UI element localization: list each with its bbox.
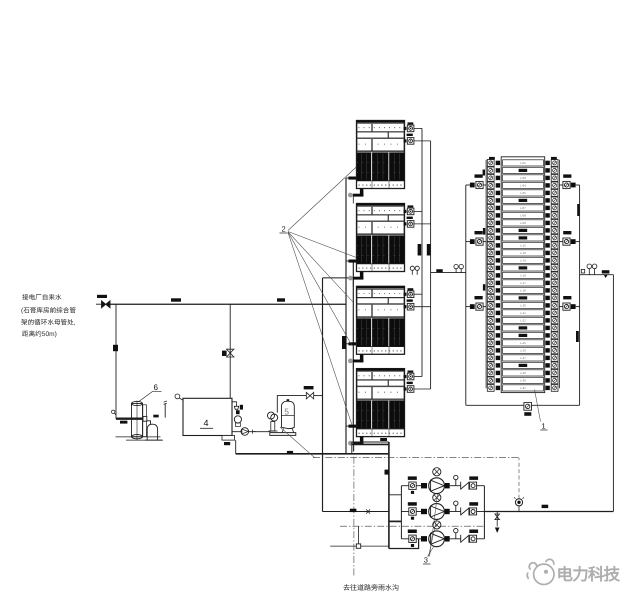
- svg-text:L-13: L-13: [520, 251, 526, 255]
- svg-text:L-03: L-03: [520, 176, 526, 180]
- gauge pair on rack right run: [587, 264, 597, 275]
- svg-text:L-20: L-20: [520, 304, 526, 308]
- level gauge on tank 4: [175, 394, 183, 400]
- svg-text:3: 3: [424, 556, 428, 565]
- gauge pair on cross connector: [454, 264, 464, 272]
- svg-text:L-31: L-31: [520, 386, 526, 390]
- tag under softener feed: [120, 421, 127, 424]
- basin top edge: [352, 442, 389, 444]
- circulating pump row 2: [401, 494, 484, 520]
- svg-text:L-09: L-09: [520, 221, 526, 225]
- valve on supply main: [96, 295, 110, 308]
- tag on main discharge line: [542, 505, 549, 508]
- tag beside rack right header lower: [576, 331, 579, 342]
- rack module row 22: [487, 317, 558, 324]
- rack manifold tap L y=185.0: [466, 174, 486, 188]
- rack manifold tap R y=306.6: [559, 296, 579, 310]
- centerline dash-dot vertical: [353, 444, 355, 577]
- rack left inner header: [485, 160, 487, 388]
- svg-text:L-16: L-16: [520, 274, 526, 278]
- rack module row 2: [487, 167, 558, 174]
- tag on riser B: [342, 336, 346, 349]
- tag right of softener: [153, 415, 158, 418]
- svg-text:L-04: L-04: [520, 184, 526, 188]
- wire: tank 4 drain drop: [235, 440, 237, 454]
- basin right edge pipe: [388, 442, 390, 549]
- dashed impulse line of flow meter: [518, 458, 520, 499]
- bladder tank 5: [282, 399, 295, 432]
- rack outer frame: [501, 157, 545, 393]
- mixer tag on tank 4: [236, 410, 240, 414]
- leader line from tank 5 area: [280, 427, 315, 458]
- rack module row 4: [487, 182, 558, 189]
- tag at overflow: [240, 405, 243, 410]
- pump suction manifold: [400, 486, 402, 539]
- rack module row 15: [487, 265, 558, 272]
- small fitting on rack right run: [581, 269, 584, 273]
- drain piping of unit 2-4: [346, 425, 363, 452]
- rack module row 29: [487, 370, 558, 377]
- valve on pump 5 discharge: [304, 386, 314, 399]
- svg-text:L-08: L-08: [520, 214, 526, 218]
- pipe tag on left drop: [113, 345, 118, 351]
- rack module row 26: [487, 347, 558, 354]
- rack module row 28: [487, 362, 558, 369]
- wire: blowdown line left: [323, 511, 389, 513]
- collector riser x=422: [421, 128, 423, 376]
- tank 4 overflow funnel: [232, 402, 239, 410]
- pipe tag on supply main 1: [171, 298, 181, 301]
- tag on collector riser A: [418, 244, 422, 256]
- drain piping of unit 2-2: [346, 260, 363, 287]
- wire: supply main horizontal: [110, 303, 346, 305]
- label 6 with leader: [139, 383, 162, 402]
- small gauge on feed drop: [112, 410, 117, 415]
- rack module row 11: [487, 235, 558, 242]
- wire: basin stub 1: [389, 494, 402, 496]
- riser pipe A x=322.5: [322, 278, 324, 512]
- svg-text:L-26: L-26: [520, 349, 526, 353]
- flow meter on main line: [514, 497, 524, 511]
- rack manifold tap L y=306.6: [466, 296, 486, 310]
- wire: softener to salt tank: [147, 421, 151, 425]
- valve on tank-4 drop: [222, 349, 234, 357]
- rack module row 21: [487, 310, 558, 317]
- wire: unit 2-3 instruments to risers: [414, 294, 431, 307]
- tag above basin right: [380, 438, 387, 441]
- wire: drain lateral y=546: [330, 545, 388, 547]
- riser pipe B x=346: [345, 178, 347, 454]
- label 1 with leader: [535, 390, 548, 431]
- skid base plate: [270, 433, 296, 436]
- rack module row 27: [487, 355, 558, 362]
- svg-text:去往道路旁雨水沟: 去往道路旁雨水沟: [343, 584, 399, 592]
- label 2 with leaders to tower units: [280, 167, 357, 425]
- rack module row 18: [487, 287, 558, 294]
- basin left edge: [351, 442, 353, 454]
- cooling tower unit 2-3: [357, 286, 405, 354]
- rack module row 13: [487, 250, 558, 257]
- rack module row 31: [487, 385, 558, 392]
- svg-text:5: 5: [284, 406, 289, 416]
- note: plant tap-water source text: [21, 294, 76, 339]
- tank 4 drain box: [222, 436, 235, 446]
- svg-text:L-21: L-21: [520, 311, 526, 315]
- rack module row 6: [487, 197, 558, 204]
- svg-text:L-12: L-12: [520, 244, 526, 248]
- wire: small drop x=358.5: [358, 526, 360, 546]
- wire: unit 2-2 instruments to risers: [414, 211, 431, 224]
- svg-text:L-29: L-29: [520, 371, 526, 375]
- drain piping of unit 2-3: [346, 342, 363, 369]
- tag on rack right run: [602, 270, 610, 278]
- tag on collector riser B: [427, 244, 431, 256]
- rack module row 5: [487, 190, 558, 197]
- softener connector block: [143, 416, 147, 421]
- rack module row 10: [487, 227, 558, 234]
- gauge pair under unit 2-2: [410, 266, 419, 275]
- tag beside rack left header upper: [483, 170, 485, 176]
- pressure pump unit 5 group: [268, 412, 278, 431]
- centerline dash-dot lower: [340, 525, 484, 527]
- rack bottom outer pipe: [466, 404, 580, 406]
- wire: cross connector to rack header: [431, 272, 466, 274]
- svg-text:L-18: L-18: [520, 289, 526, 293]
- rack module row 17: [487, 280, 558, 287]
- svg-text:(石膏库房前综合管: (石膏库房前综合管: [21, 307, 76, 315]
- drain piping of unit 2-1: [346, 177, 363, 204]
- tag above rack first row left: [489, 157, 495, 160]
- circulating pump row 1: [401, 468, 484, 494]
- svg-text:接电厂自来水: 接电厂自来水: [22, 294, 62, 302]
- rack manifold tap R y=241.6: [559, 231, 579, 245]
- rack module row 24: [487, 332, 558, 339]
- cooling tower unit 2-1: [357, 121, 405, 189]
- crossing symbol on blowdown line: [366, 509, 370, 513]
- rack right outer pipe: [579, 185, 581, 405]
- svg-text:L-25: L-25: [520, 341, 526, 345]
- wire: basin stub 2 thick: [389, 520, 402, 522]
- wire: main discharge line: [484, 511, 613, 513]
- svg-text:L-30: L-30: [520, 379, 526, 383]
- instrument pair of unit 2-4: [404, 371, 414, 393]
- collector riser x=430.6: [430, 141, 432, 389]
- svg-text:电力科技: 电力科技: [557, 565, 621, 584]
- tag beside rack left header mid2: [483, 284, 485, 290]
- wire: bottom transfer line: [236, 453, 389, 455]
- rack module row 25: [487, 340, 558, 347]
- rack left outer pipe: [465, 185, 467, 405]
- svg-text:L-01: L-01: [520, 161, 526, 165]
- wire: tank 4 outlet to pump: [232, 431, 271, 433]
- cooling tower unit 2-2: [357, 204, 405, 272]
- pipe tag on supply main 2: [277, 298, 285, 301]
- cooling tower unit 2-4: [357, 369, 405, 437]
- centerline dash-dot horizontal: [313, 457, 519, 459]
- svg-text:2: 2: [282, 225, 286, 234]
- riser pipe C x=353.3: [352, 262, 354, 442]
- rack module row 20: [487, 302, 558, 309]
- rack module row 30: [487, 377, 558, 384]
- svg-text:L-27: L-27: [520, 356, 526, 360]
- svg-text:L-17: L-17: [520, 281, 526, 285]
- transfer pump on line: [241, 428, 256, 436]
- svg-text:L-14: L-14: [520, 259, 526, 263]
- wire: riser A top runover: [323, 277, 354, 279]
- svg-text:架的循环水母管处,: 架的循环水母管处,: [21, 319, 76, 327]
- label 4: [200, 418, 213, 428]
- svg-text:L-22: L-22: [520, 319, 526, 323]
- rack right inner header: [558, 160, 560, 388]
- watermark logo: [527, 559, 554, 584]
- wire: basin bottom drain L: [389, 539, 419, 549]
- rack module row 19: [487, 295, 558, 302]
- softener resin tank (6): [132, 401, 147, 441]
- instrument pair of unit 2-3: [404, 288, 414, 310]
- softener base lines: [116, 437, 164, 440]
- dosing pump on tank 4 side: [234, 416, 241, 427]
- rack module row 7: [487, 205, 558, 212]
- right downcomer pipe: [612, 275, 614, 512]
- tag on cross connector: [436, 269, 442, 272]
- svg-text:4: 4: [204, 418, 209, 428]
- rack module row 14: [487, 257, 558, 264]
- junction box on drain lateral: [356, 544, 360, 548]
- rack module row 8: [487, 212, 558, 219]
- wire: pump 5 discharge up and over: [277, 396, 306, 413]
- tag on blowdown line: [350, 509, 357, 512]
- svg-text:距离约50m): 距离约50m): [22, 330, 57, 338]
- wire: unit 2-4 instruments to risers: [414, 377, 431, 390]
- rack module row 1: [487, 160, 558, 167]
- salt tank of softener: [145, 424, 162, 440]
- pump discharge header: [483, 486, 485, 539]
- instrument pair of unit 2-1: [404, 122, 414, 144]
- tank 4 body: [183, 398, 232, 435]
- tag beside rack right header: [577, 204, 580, 216]
- circulating pump row 3: [401, 521, 484, 547]
- tag above rack first row right: [551, 157, 557, 160]
- wire: unit 2-1 instruments to risers: [414, 128, 431, 141]
- svg-text:L-07: L-07: [520, 206, 526, 210]
- rack module row 3: [487, 175, 558, 182]
- instrument pair of unit 2-2: [404, 205, 414, 227]
- rack module row 9: [487, 220, 558, 227]
- wire: left drop to softener: [115, 304, 117, 419]
- rack module row 12: [487, 242, 558, 249]
- softener feed pipe (thick): [116, 418, 146, 420]
- flange on basin right edge: [385, 470, 389, 475]
- rack manifold tap R y=185.0: [559, 174, 579, 188]
- svg-text:L-05: L-05: [520, 191, 526, 195]
- tag beside rack left header mid1: [483, 228, 485, 235]
- svg-text:6: 6: [154, 383, 159, 392]
- drain fitting under main line: [495, 512, 500, 534]
- wire: softener outlet riser: [164, 401, 167, 418]
- rack manifold tap L y=241.6: [466, 231, 486, 245]
- rack module row 23: [487, 325, 558, 332]
- rack bottom drain instrument: [524, 403, 532, 416]
- svg-text:1: 1: [542, 422, 546, 431]
- rack module row 16: [487, 272, 558, 279]
- wire: valve to riser: [314, 395, 323, 397]
- tag on bottom transfer line: [287, 451, 293, 454]
- wire: rack right to downcomer: [580, 274, 614, 276]
- label 3 with leaders: [423, 494, 438, 565]
- wire: drop to tank 4: [229, 304, 231, 398]
